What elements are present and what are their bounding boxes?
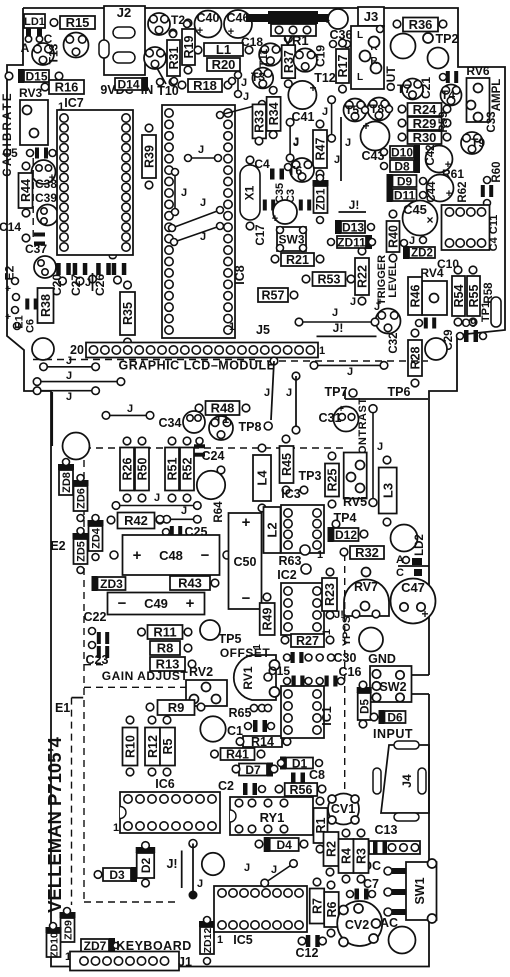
capacitor C42 electrolytic: [426, 146, 453, 173]
capacitor C45 electrolytic: [403, 201, 438, 236]
svg-text:R56: R56: [289, 783, 312, 797]
svg-text:J: J: [181, 187, 187, 199]
svg-text:R28: R28: [409, 346, 423, 369]
capacitor bars below RV4: [424, 318, 428, 329]
transistor pad circle: [64, 33, 89, 58]
wire from TP6 to edge: [344, 390, 346, 399]
switch SW1: [406, 862, 437, 920]
big capacitor C50: [229, 513, 262, 609]
svg-text:SW3: SW3: [278, 232, 304, 246]
svg-text:R1: R1: [314, 817, 328, 833]
svg-text:J!: J!: [333, 321, 344, 335]
svg-text:×: ×: [426, 213, 433, 227]
svg-text:J5: J5: [256, 323, 270, 337]
svg-text:D10: D10: [391, 145, 413, 159]
svg-text:LD1: LD1: [24, 16, 45, 28]
resistor R27: [291, 634, 324, 647]
svg-text:1: 1: [317, 549, 323, 561]
svg-text:E2: E2: [50, 539, 65, 553]
svg-text:D2: D2: [139, 858, 153, 874]
svg-text:C4 C11: C4 C11: [488, 215, 500, 252]
svg-text:C47: C47: [401, 580, 425, 595]
svg-text:R7: R7: [310, 898, 324, 914]
svg-text:C39: C39: [35, 191, 57, 205]
svg-text:C9: C9: [461, 316, 477, 330]
transistor T11: [259, 43, 282, 66]
svg-text:TP7: TP7: [325, 385, 348, 399]
svg-text:LEVEL: LEVEL: [387, 262, 399, 298]
svg-text:R23: R23: [323, 583, 337, 606]
svg-text:C42: C42: [425, 144, 437, 165]
resistor R29: [408, 117, 442, 130]
svg-text:C24: C24: [202, 449, 225, 463]
svg-text:−: −: [201, 547, 210, 564]
wire J vertical 1: [289, 122, 291, 158]
svg-text:INPUT: INPUT: [373, 727, 413, 741]
capacitor C47 electrolytic: [391, 579, 436, 624]
svg-text:ZD6: ZD6: [75, 488, 87, 509]
capacitor C31 electrolytic: [334, 407, 359, 432]
svg-text:R16: R16: [55, 80, 79, 95]
wire J vertical 2: [331, 100, 333, 139]
resistor R46: [408, 277, 422, 315]
capacitor bars right of C17: [299, 200, 303, 211]
svg-text:IC3: IC3: [281, 487, 301, 501]
svg-text:C49: C49: [144, 596, 168, 611]
svg-text:J: J: [85, 277, 91, 289]
svg-text:IC8: IC8: [233, 265, 247, 285]
svg-text:TP8: TP8: [239, 420, 262, 434]
svg-text:R39: R39: [143, 145, 157, 168]
svg-text:R36: R36: [409, 17, 433, 32]
svg-text:J!: J!: [334, 609, 344, 621]
svg-text:J: J: [127, 403, 133, 415]
svg-text:T13: T13: [47, 43, 61, 64]
svg-text:J: J: [350, 296, 356, 308]
diode ZD7: [81, 939, 109, 952]
capacitor C27: [73, 263, 78, 275]
svg-text:−: −: [118, 595, 127, 612]
wire vertical left: [51, 392, 53, 446]
svg-text:J4: J4: [400, 774, 414, 788]
capacitor C41 electrolytic: [288, 81, 316, 109]
svg-text:C44: C44: [426, 181, 438, 203]
diode ZD10: [47, 933, 61, 957]
LD2 pads: [412, 558, 422, 565]
svg-text:C19: C19: [314, 45, 328, 67]
capacitor C28: [112, 263, 117, 275]
svg-text:R41: R41: [226, 748, 249, 762]
svg-text:+: +: [242, 514, 251, 531]
svg-text:R33: R33: [253, 110, 267, 133]
resistor R42: [118, 513, 155, 529]
capacitor C43 electrolytic: [361, 122, 390, 151]
svg-text:C45: C45: [403, 202, 427, 217]
svg-text:C41: C41: [292, 110, 315, 124]
IC5 DIP-16: [214, 886, 307, 932]
resistor R15: [60, 16, 95, 29]
resistor R28: [408, 340, 422, 376]
svg-text:R52: R52: [181, 457, 195, 480]
svg-text:C1: C1: [227, 724, 243, 738]
resistor R43: [170, 576, 210, 590]
svg-text:T4: T4: [441, 88, 455, 102]
dashed line left of IC7: [32, 158, 34, 238]
svg-text:C14: C14: [0, 220, 21, 234]
svg-text:R24: R24: [413, 102, 438, 117]
jumper J near R42: [167, 518, 198, 520]
svg-text:J: J: [409, 235, 415, 247]
resistor R41: [221, 748, 255, 760]
capacitor C36 electrolytic: [328, 9, 348, 29]
svg-text:C30: C30: [334, 651, 357, 665]
svg-text:R47: R47: [314, 137, 328, 160]
svg-text:L1: L1: [216, 42, 231, 57]
svg-text:R49: R49: [261, 607, 275, 630]
svg-text:R59: R59: [438, 111, 450, 132]
svg-text:−: −: [242, 590, 251, 607]
trimmer RV1: [234, 655, 276, 700]
svg-text:D15: D15: [25, 69, 47, 83]
svg-text:J: J: [334, 154, 340, 166]
svg-text:ZD5: ZD5: [75, 541, 87, 562]
svg-text:LD2: LD2: [414, 534, 426, 556]
svg-text:C32: C32: [388, 332, 400, 353]
svg-text:R32: R32: [355, 545, 379, 560]
circle above SW2: [359, 628, 383, 652]
elco E1 C6 pads: [12, 278, 19, 285]
svg-text:AMPL: AMPL: [491, 79, 503, 112]
IC1 DIP-8: [281, 686, 324, 738]
diode D5: [358, 693, 371, 720]
capacitor C38 electrolytic: [32, 160, 56, 184]
svg-text:R30: R30: [413, 130, 437, 145]
svg-text:J: J: [200, 197, 206, 209]
svg-text:C37: C37: [25, 242, 47, 256]
svg-text:IC2: IC2: [277, 568, 297, 582]
svg-text:+: +: [5, 284, 11, 295]
resistor R21: [281, 253, 314, 266]
svg-text:C38: C38: [35, 177, 57, 191]
svg-text:R45: R45: [280, 453, 294, 476]
svg-text:CV2: CV2: [345, 918, 369, 932]
svg-text:J: J: [197, 878, 203, 890]
svg-text:J3: J3: [364, 9, 378, 24]
svg-text:R34: R34: [267, 102, 281, 125]
wire SW2 to edge: [412, 674, 430, 676]
svg-text:RV4: RV4: [420, 266, 443, 280]
svg-text:J: J: [181, 505, 187, 517]
svg-text:R14: R14: [251, 735, 274, 749]
svg-text:R50: R50: [136, 457, 150, 480]
resistor R19: [182, 29, 195, 65]
big circle left: [63, 433, 90, 460]
transistor can 2: [428, 48, 449, 69]
diode ZD11: [337, 236, 366, 248]
resistor R16: [49, 80, 84, 94]
svg-text:ZD9: ZD9: [62, 920, 74, 940]
transistor T8: [368, 98, 391, 121]
svg-text:J: J: [66, 355, 72, 367]
svg-text:ZD4: ZD4: [90, 527, 102, 549]
svg-text:20: 20: [70, 343, 84, 357]
svg-text:R: R: [370, 56, 378, 67]
svg-text:C4: C4: [254, 157, 270, 171]
svg-text:J: J: [286, 387, 292, 399]
svg-text:T11: T11: [258, 49, 270, 67]
diode D15: [24, 70, 49, 82]
svg-text:R4: R4: [340, 848, 354, 864]
svg-text:R6: R6: [325, 901, 339, 917]
svg-text:ZD12: ZD12: [202, 928, 214, 954]
svg-text:R44: R44: [19, 179, 33, 202]
svg-text:R10: R10: [124, 735, 138, 758]
resistor R32: [350, 546, 384, 559]
svg-text:RV2: RV2: [189, 665, 213, 679]
svg-text:+: +: [272, 213, 278, 225]
svg-text:R26: R26: [121, 457, 135, 480]
svg-text:R5: R5: [161, 738, 175, 754]
dashed line under LCD connector: [33, 359, 255, 361]
svg-text:R3: R3: [355, 848, 369, 864]
transistor T4: [441, 85, 462, 106]
resistor R54: [452, 276, 465, 316]
transistor T9: [461, 132, 483, 154]
resistor R12: [145, 728, 160, 766]
connector J3: [358, 7, 384, 26]
svg-text:R35: R35: [121, 302, 135, 325]
IC opto DIP-8: [442, 205, 490, 250]
svg-text:C23: C23: [86, 653, 109, 667]
svg-text:CV1: CV1: [331, 802, 355, 816]
capacitor C44 electrolytic: [427, 175, 454, 202]
svg-text:L2: L2: [265, 522, 280, 537]
svg-text:VR1: VR1: [283, 33, 308, 48]
svg-text:+: +: [309, 81, 316, 95]
diode D13: [341, 221, 365, 233]
LED LD1: [24, 14, 45, 28]
svg-text:GAIN ADJUST: GAIN ADJUST: [102, 669, 189, 683]
test point TP2: [423, 33, 433, 43]
relay RY1: [230, 797, 313, 835]
diode ZD8: [59, 470, 73, 495]
svg-text:D1: D1: [292, 756, 308, 770]
svg-text:ZD1: ZD1: [316, 188, 328, 210]
resistor R3: [354, 839, 369, 873]
svg-text:R43: R43: [178, 576, 202, 591]
svg-text:R21: R21: [286, 253, 309, 267]
svg-text:ZD2: ZD2: [411, 248, 433, 260]
svg-text:C6: C6: [25, 319, 37, 333]
svg-text:J2: J2: [117, 5, 131, 20]
dashed bottom: [84, 901, 176, 903]
resistor R49: [260, 603, 275, 635]
resistor R45: [280, 446, 294, 483]
big capacitor C48: [123, 535, 220, 575]
svg-text:T12: T12: [314, 71, 336, 85]
resistor R44: [19, 173, 33, 208]
svg-text:RV7: RV7: [354, 580, 378, 594]
svg-text:J: J: [200, 231, 206, 243]
svg-text:GRAPHIC LCD–MODULE: GRAPHIC LCD–MODULE: [119, 359, 276, 373]
resistor R4: [339, 839, 354, 873]
svg-text:IC6: IC6: [155, 777, 175, 791]
diode D12: [334, 528, 359, 541]
resistor R6: [324, 892, 339, 927]
svg-text:R64: R64: [213, 501, 225, 523]
svg-text:C48: C48: [159, 548, 183, 563]
inductor L2: [264, 507, 281, 553]
svg-text:T5: T5: [345, 103, 359, 117]
svg-text:T1: T1: [215, 412, 229, 426]
pads under C45: [401, 240, 408, 247]
resistor R39: [142, 135, 156, 178]
svg-text:ZD3: ZD3: [100, 577, 123, 591]
pads near T5 T8: [362, 107, 369, 114]
connector J4: [381, 745, 429, 813]
connector J2 9VDC power jack: [104, 6, 145, 75]
diode ZD2: [409, 247, 435, 258]
resistor R31: [167, 40, 180, 76]
svg-text:R51: R51: [166, 457, 180, 480]
svg-text:J: J: [377, 441, 383, 453]
svg-text:J: J: [66, 370, 72, 382]
resistor R25: [325, 464, 339, 497]
dashed jog at C23: [84, 664, 107, 666]
resistor R57: [258, 288, 288, 302]
diode D9: [393, 175, 417, 187]
resistor R33: [253, 104, 267, 138]
resistor R52: [180, 448, 194, 491]
svg-text:+: +: [186, 595, 195, 612]
svg-text:+: +: [228, 26, 234, 38]
stray pads top: [184, 21, 191, 28]
svg-text:D14: D14: [117, 77, 139, 91]
svg-text:D3: D3: [109, 868, 125, 882]
SW1 contact bars: [384, 867, 392, 875]
transistor T10: [144, 47, 166, 69]
resistor R48: [206, 401, 240, 415]
resistor R14: [243, 736, 282, 747]
resistor R2: [324, 832, 339, 866]
svg-text:J1: J1: [178, 955, 192, 969]
svg-text:C18: C18: [241, 35, 263, 49]
wire CONTRAST: [372, 409, 374, 503]
svg-text:J: J: [347, 366, 353, 378]
board outline: [23, 8, 505, 675]
svg-text:+: +: [197, 25, 203, 37]
transistor T1: [209, 416, 233, 440]
wire stub: [398, 565, 429, 567]
voltage regulator VR1: [268, 11, 318, 24]
svg-text:J!: J!: [166, 857, 177, 871]
svg-text:J: J: [332, 307, 338, 319]
svg-text:L4: L4: [255, 470, 270, 486]
capacitor C25: [170, 526, 174, 538]
svg-text:R57: R57: [262, 289, 285, 303]
jumper J diagonal 2: [174, 226, 220, 242]
svg-text:J: J: [66, 391, 72, 403]
resistor R53: [313, 272, 346, 286]
svg-text:C50: C50: [234, 555, 257, 569]
trimmer RV5: [344, 453, 367, 499]
svg-text:SW2: SW2: [379, 680, 406, 694]
svg-text:TP3: TP3: [299, 469, 322, 483]
svg-text:R54: R54: [452, 284, 466, 307]
svg-text:+: +: [446, 188, 452, 200]
svg-text:+: +: [5, 312, 11, 323]
resistor R7: [310, 889, 325, 924]
svg-text:J: J: [271, 864, 277, 876]
connector J1: [70, 952, 179, 971]
switch SW3: [277, 227, 306, 251]
wire with pad: [189, 840, 197, 848]
svg-text:R9: R9: [168, 700, 185, 715]
wires to TP8: [270, 357, 278, 365]
svg-text:D12: D12: [335, 528, 357, 542]
capacitor C17 electrolytic: [273, 200, 297, 224]
transistor T3: [252, 68, 273, 89]
svg-text:R11: R11: [153, 625, 176, 640]
svg-text:T3: T3: [251, 70, 265, 84]
svg-text:ZD11: ZD11: [337, 235, 366, 249]
resistor R38: [38, 288, 54, 323]
svg-text:R17: R17: [336, 54, 350, 77]
svg-text:D7: D7: [245, 763, 261, 777]
dashed jog at GAIN ADJUST: [84, 686, 186, 688]
svg-text:IC1: IC1: [320, 706, 334, 726]
svg-text:D13: D13: [342, 220, 364, 234]
svg-text:R20: R20: [212, 57, 236, 72]
jumper J inside IC8: [188, 157, 218, 159]
resistor R20: [207, 58, 240, 71]
svg-text:C15: C15: [268, 664, 290, 678]
svg-text:R29: R29: [413, 116, 437, 131]
svg-text:RY1: RY1: [260, 810, 285, 825]
resistor R56: [285, 783, 318, 796]
svg-text:J: J: [322, 106, 328, 118]
transistor C32: [376, 309, 401, 334]
crystal X1: [240, 165, 260, 220]
switch SW2: [370, 666, 412, 702]
svg-text:T9: T9: [471, 136, 485, 150]
capacitor C24: [194, 444, 205, 448]
inductor L3: [379, 468, 397, 514]
pad circle right of R28: [425, 338, 447, 360]
resistor R23: [322, 578, 337, 611]
circle right of R11: [200, 620, 220, 640]
trimmer RV7: [344, 580, 389, 617]
resistor R51: [165, 448, 179, 491]
svg-text:C5: C5: [2, 146, 18, 160]
svg-text:ZD8: ZD8: [61, 472, 73, 493]
svg-text:R22: R22: [356, 265, 370, 288]
svg-text:R46: R46: [409, 284, 423, 307]
diode D3: [103, 868, 131, 881]
svg-text:J: J: [241, 77, 247, 89]
dashed line horizontal: [84, 447, 344, 449]
svg-text:+: +: [324, 16, 330, 27]
svg-text:C20: C20: [50, 274, 64, 296]
resistor R37: [282, 45, 296, 78]
svg-text:D4: D4: [277, 838, 293, 852]
transistor T6: [290, 158, 314, 182]
svg-text:R40: R40: [387, 225, 401, 248]
svg-text:L: L: [357, 72, 363, 83]
capacitor C20: [56, 263, 61, 275]
dashed line below J5: [255, 360, 428, 362]
resistor R26: [120, 448, 134, 491]
